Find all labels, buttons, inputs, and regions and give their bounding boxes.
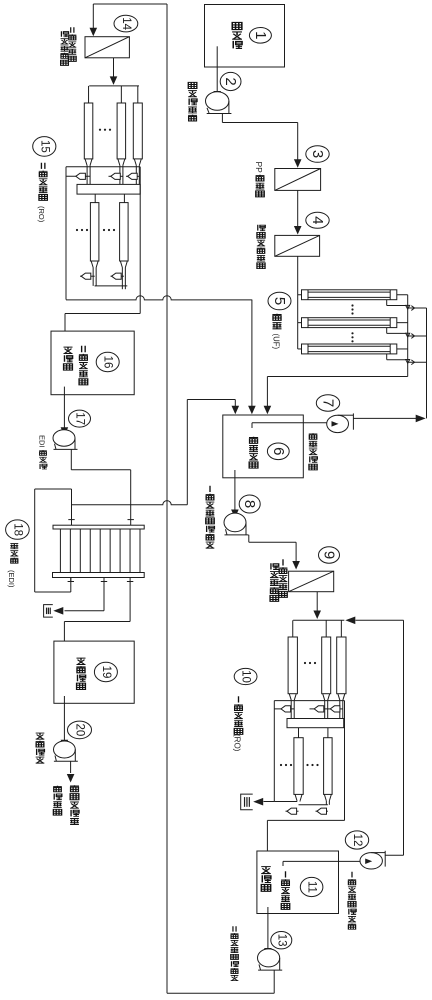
RO stage2 valve 1 (RO10): [286, 808, 299, 814]
badge 9: [319, 547, 340, 563]
svg-text:8: 8: [241, 500, 258, 508]
svg-text:1: 1: [252, 31, 269, 39]
EDI stack plates: [60, 529, 140, 573]
wire filter4 to UF feed: [297, 256, 299, 349]
RO stage1 feed drop 3 (RO10): [340, 620, 342, 637]
label 二级反渗透 (tank16): [79, 346, 88, 385]
wire UF backwash riser: [426, 308, 428, 418]
badge 14: [114, 15, 138, 32]
svg-text:EDI: EDI: [38, 435, 47, 448]
wire UF permeate drop to tank6: [264, 377, 272, 415]
RO stage1 feed drop 2 (RO10): [325, 620, 327, 637]
tank 1 raw water pool (生水池): [205, 5, 285, 68]
wire pump12 suction: [283, 861, 361, 866]
RO stage1 feed drop 1 (RO10): [292, 620, 294, 637]
RO interstage header (RO15): [77, 184, 140, 194]
label 生水提升泵: [188, 82, 197, 121]
RO stage2 dots b (RO15): [103, 229, 115, 231]
label 除盐水泵: [36, 733, 45, 763]
wire RO15 permeate run: [65, 313, 140, 315]
tank 16 secondary RO product tank (二级反渗透产水箱): [51, 331, 134, 395]
RO stage2 membrane vessel 1 (RO15): [90, 203, 99, 261]
svg-text:17: 17: [74, 412, 86, 425]
RO stage2 feed drop 2 (RO10): [327, 728, 329, 738]
wire EDI concentrate line: [72, 400, 188, 505]
RO stage1 vessel 2 bottom neck (RO10): [323, 694, 330, 719]
tank 6 UF water tank (超滤水箱): [223, 415, 303, 478]
RO stage2 valve 1 (RO15): [80, 273, 95, 279]
UF membrane module 3: [298, 344, 427, 365]
RO stage1 membrane vessel 1 (RO15): [84, 103, 93, 159]
RO stage1 feed drop 2 (RO15): [120, 86, 122, 103]
svg-text:19: 19: [100, 666, 112, 679]
RO stage1 valve 3 (RO15): [126, 173, 139, 179]
wire loop drop to filter14: [90, 4, 98, 36]
EDI drain drop: [101, 578, 107, 611]
wire tank1 to pump2: [213, 46, 221, 99]
svg-text:13: 13: [275, 934, 287, 947]
RO stage1 vessel 2 bottom neck (RO15): [118, 159, 125, 185]
filter 3 PP filter (PP过滤器): [275, 169, 321, 191]
badge 13: [271, 932, 292, 949]
RO stage2 vessel 1 neck (RO10): [295, 794, 302, 801]
badge 10: [234, 668, 257, 684]
label 二级反渗透(RO): [37, 163, 48, 223]
RO stage2 feed drop 2 (RO15): [123, 194, 125, 203]
RO stage2 dots b (RO10): [306, 764, 318, 766]
svg-text:4: 4: [309, 216, 326, 224]
RO15 stage2 collector: [95, 285, 128, 287]
badge 4: [306, 212, 329, 228]
pump 8 primary RO lift pump: [224, 513, 249, 535]
RO stage1 collector (RO15): [66, 166, 140, 168]
EDI bottom tick 1: [68, 578, 74, 582]
pump 12 primary RO flush pump: [360, 851, 385, 869]
RO stage2 dots a (RO10): [280, 764, 292, 766]
label EDI给水泵: [38, 435, 47, 469]
svg-text:10: 10: [240, 670, 252, 683]
wire down to filter3: [294, 123, 302, 168]
filter 9 primary RO cartridge filter: [289, 571, 334, 592]
RO stage2 membrane vessel 2 (RO10): [324, 738, 333, 795]
EDI drain line: [53, 607, 104, 615]
wire pump7 discharge: [353, 415, 425, 423]
EDI electrode drop left: [68, 489, 74, 525]
badge 11: [300, 877, 323, 896]
wire UF inner permeate riser: [407, 295, 409, 377]
svg-text:20: 20: [74, 724, 86, 737]
RO stage2 feed drop 1 (RO15): [94, 194, 96, 203]
RO10 drain line: [264, 802, 328, 805]
svg-text:3: 3: [309, 150, 326, 158]
RO stage1 vessel 3 bottom neck (RO10): [338, 694, 345, 719]
RO left frame (RO10): [273, 701, 275, 802]
RO stage1 feed drop 1 (RO15): [88, 86, 90, 103]
wire EDI concentrate run: [187, 399, 235, 401]
RO stage1 membrane vessel 2 (RO15): [117, 103, 126, 159]
label 超滤 (UF): [272, 314, 282, 350]
RO stage1 membrane vessel 3 (RO10): [337, 637, 346, 694]
RO stage2 valve 2 (RO10): [316, 808, 328, 814]
RO stage1 vessel 1 bottom neck (RO10): [289, 694, 296, 719]
wire filter9 to RO10: [313, 592, 321, 619]
label 二级反渗透保安过滤器: [60, 27, 76, 65]
wire pump13 discharge: [167, 970, 274, 993]
label 二级反渗透提升泵: [231, 926, 239, 980]
wire RO15 permeate drop to tank16: [64, 314, 66, 332]
label 既有锅炉补给水管网: [53, 785, 79, 824]
wire to filter9: [292, 542, 300, 569]
RO stage1 valve 1 (RO15): [66, 173, 90, 179]
EDI stack bottom plate: [53, 573, 145, 578]
RO feed manifold (RO15): [89, 85, 139, 87]
badge 2: [220, 72, 241, 90]
wire pump7 suction: [252, 423, 327, 428]
label 生水池: [232, 22, 242, 48]
svg-text:(UF): (UF): [272, 334, 281, 350]
EDI feed drop right: [128, 505, 134, 525]
badge 15: [33, 137, 56, 157]
EDI electrode loop: [35, 489, 72, 592]
drain symbol (RO10 concentrate): [241, 794, 264, 810]
label 一级反渗透保安过滤器: [270, 559, 288, 601]
UF dots group 2: [351, 332, 353, 342]
pump 20 demineralized water pump (除盐水泵): [54, 741, 78, 761]
wire top loop run: [93, 3, 167, 5]
RO10 flush return arrow: [345, 617, 403, 625]
badge 17: [69, 410, 91, 427]
badge 5: [268, 292, 291, 310]
wire UF permeate header: [267, 376, 407, 378]
RO stage2 feed drop 1 (RO10): [298, 728, 300, 738]
wire RO10 permeate drop to tank11: [266, 820, 268, 851]
svg-text:11: 11: [306, 881, 318, 893]
badge 20: [68, 721, 92, 739]
drain symbol (EDI): [44, 605, 53, 618]
pump 13 secondary RO lift pump: [258, 949, 283, 970]
label 超滤水箱: [249, 437, 258, 468]
tank 19 demineralized water tank (除盐水箱): [54, 641, 134, 703]
svg-text:6: 6: [270, 447, 287, 455]
svg-text:7: 7: [320, 399, 337, 407]
wire EDI concentrate drop to tank6: [232, 400, 240, 415]
wire EDI product to tank19: [64, 622, 130, 642]
RO stage1 valve 2 (RO10): [310, 706, 328, 712]
wire filter14 to RO15: [110, 58, 118, 85]
RO right frame (RO10): [344, 701, 346, 821]
filter 4 self-cleaning filter (自清洗过滤器): [275, 235, 320, 256]
filter 14 secondary RO cartridge filter: [85, 37, 129, 58]
label 自清洗过滤器: [257, 225, 265, 269]
UF membrane module 1: [298, 290, 427, 311]
RO stage1 dots (RO15): [99, 129, 111, 131]
badge 3: [306, 146, 329, 163]
wire RO10 permeate line: [267, 818, 344, 820]
RO right frame (RO15): [139, 167, 141, 314]
wire tank16 outlet: [61, 387, 69, 436]
label PP过滤器: [254, 162, 264, 197]
RO stage2 vessel 1 neck (RO15): [91, 261, 98, 286]
wire RO15 concentrate drop to tank6: [248, 300, 256, 414]
wire main loop riser: [166, 4, 168, 993]
wire tank11 outlet: [264, 907, 272, 957]
RO stage2 vessel 2 neck (RO10): [324, 794, 331, 804]
RO interstage header (RO10): [287, 719, 344, 728]
label 产水箱 (tank16): [64, 347, 73, 370]
wire pump8 discharge: [249, 535, 296, 542]
svg-text:12: 12: [351, 834, 363, 847]
badge 18: [6, 520, 30, 539]
svg-text:(RO): (RO): [233, 734, 242, 752]
RO stage1 vessel 3 bottom neck (RO15): [134, 159, 141, 185]
RO stage1 membrane vessel 1 (RO10): [288, 637, 297, 694]
label 超滤反洗泵: [309, 433, 318, 470]
label 一级反渗透 (tank11): [281, 871, 290, 909]
badge 8: [239, 495, 260, 513]
RO left frame (RO15): [65, 167, 67, 300]
wire RO15 concentrate to tank6: [66, 296, 252, 300]
svg-text:2: 2: [222, 77, 239, 85]
wire pump17 discharge: [71, 449, 130, 504]
wire filter3 to filter4: [294, 190, 302, 234]
label 一级反渗透冲洗泵: [348, 872, 356, 930]
RO stage2 membrane vessel 2 (RO15): [120, 203, 129, 261]
RO stage1 membrane vessel 3 (RO15): [133, 103, 142, 159]
svg-text:15: 15: [38, 140, 50, 153]
tank 11 primary RO product tank (一级反渗透产水箱): [257, 851, 339, 914]
UF membrane module 2: [298, 318, 427, 339]
svg-text:(EDI): (EDI): [7, 570, 16, 588]
svg-text:9: 9: [321, 551, 338, 559]
RO stage1 vessel 1 bottom neck (RO15): [85, 159, 92, 185]
badge 7: [316, 395, 339, 411]
RO stage2 dots a (RO15): [76, 229, 88, 231]
wire pump12 discharge riser: [385, 620, 404, 855]
label 产水箱 (tank11): [261, 867, 271, 892]
svg-text:(RO): (RO): [37, 206, 46, 223]
badge 6: [267, 443, 289, 460]
UF dots group 1: [351, 304, 353, 314]
pump 2 raw water lift pump: [206, 92, 232, 114]
badge 16: [96, 352, 119, 371]
RO stage1 valve 3 (RO10): [328, 706, 343, 712]
EDI stack 18 top plate: [53, 525, 144, 529]
RO stage2 vessel 2 neck (RO15): [120, 261, 127, 289]
label 除盐水箱: [76, 658, 85, 689]
badge 12: [345, 831, 368, 849]
wire pump20 discharge to grid: [67, 761, 75, 782]
RO stage1 dots (RO10): [304, 662, 316, 664]
label 一级反渗透(RO): [233, 696, 243, 751]
label 电除盐(EDI): [7, 544, 18, 588]
pump 17 EDI feed pump (EDI给水泵): [53, 430, 78, 450]
wire tank6 outlet: [231, 470, 239, 518]
wire pump2 discharge: [222, 114, 297, 123]
svg-text:18: 18: [11, 523, 23, 536]
RO stage1 collector (RO10): [274, 700, 344, 702]
svg-text:14: 14: [120, 17, 132, 30]
RO feed manifold (RO10): [293, 619, 344, 621]
RO stage1 membrane vessel 2 (RO10): [322, 637, 331, 694]
RO stage1 valve 1 (RO10): [274, 706, 294, 712]
RO stage1 feed drop 3 (RO15): [137, 86, 139, 103]
badge 1: [249, 28, 271, 44]
svg-text:16: 16: [102, 356, 114, 369]
svg-text:PP: PP: [254, 162, 264, 174]
wire tank19 outlet: [61, 696, 69, 748]
svg-text:5: 5: [271, 297, 288, 305]
EDI product drop: [127, 578, 133, 622]
RO stage2 valve 2 (RO15): [111, 273, 124, 279]
RO stage2 membrane vessel 1 (RO10): [294, 738, 303, 795]
label 一级反渗透提升泵: [206, 486, 215, 548]
RO stage1 valve 2 (RO15): [109, 173, 123, 179]
badge 19: [94, 662, 117, 681]
pump 7 UF backwash pump (超滤反洗泵): [327, 413, 354, 432]
